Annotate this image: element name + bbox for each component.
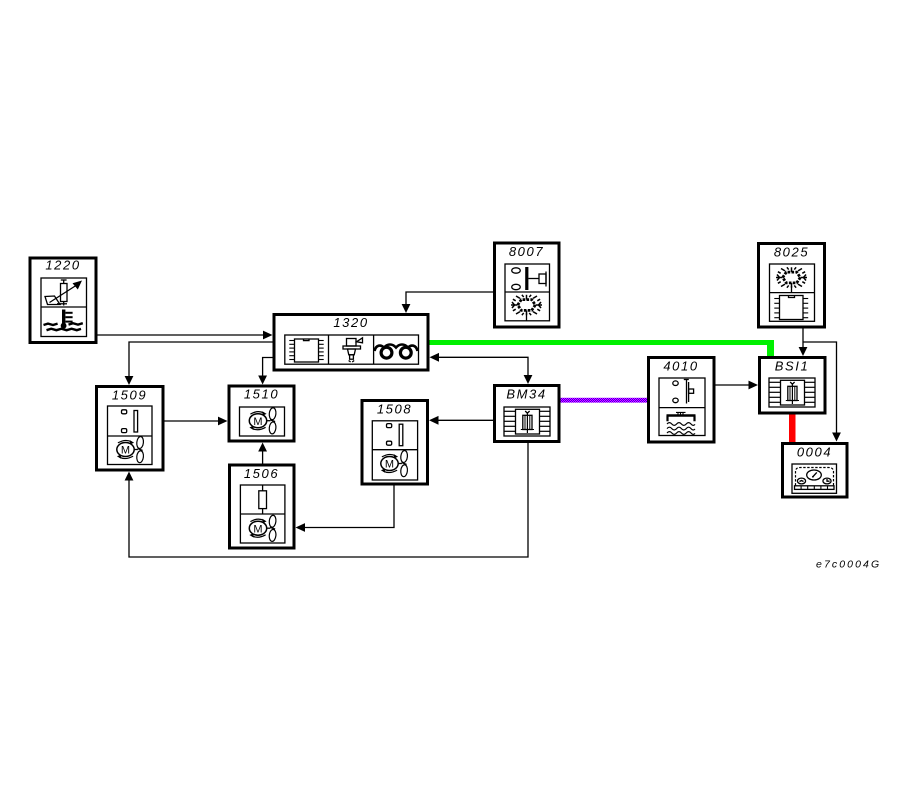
wire red BSI1 to 0004: [789, 415, 796, 443]
component 8007 AC pressure switch: [495, 243, 560, 327]
component BM34 engine fusebox: [495, 386, 560, 442]
svg-text:1220: 1220: [45, 258, 80, 273]
wire 1320 to BM34 bidirectional: [430, 353, 533, 384]
svg-text:1508: 1508: [377, 402, 412, 417]
motor fan: [117, 436, 144, 463]
svg-text:BSI1: BSI1: [775, 359, 810, 374]
double coil icon: [375, 345, 418, 359]
component BSI1 built-in systems interface: [760, 358, 826, 414]
ECU chip icon: [289, 339, 323, 362]
svg-text:1509: 1509: [112, 388, 147, 403]
svg-text:1506: 1506: [244, 466, 279, 481]
wire 8025 branch to 0004: [803, 342, 841, 442]
wire 1509 to 1510: [165, 417, 228, 426]
svg-text:4010: 4010: [663, 359, 698, 374]
component 1506 fan resistor unit: [230, 465, 295, 548]
wire 8007 to 1320: [402, 292, 494, 313]
chip icon: [774, 299, 808, 318]
wire purple BM34 to 4010: [561, 398, 648, 403]
wire 1506 to 1510: [258, 443, 267, 464]
component 1509 fan unit left: [97, 387, 164, 471]
motor fan: [381, 450, 408, 477]
wire 1320 to 1509: [125, 342, 273, 385]
svg-text:1320: 1320: [333, 315, 368, 330]
wire green thick 1320 to BSI1: [430, 340, 775, 356]
wire BM34 to 1509 long bottom: [125, 443, 528, 557]
motor fan: [249, 407, 276, 434]
svg-text:0004: 0004: [797, 445, 832, 460]
motor fan: [249, 515, 276, 542]
component 1508 fan unit center: [362, 401, 428, 485]
svg-text:e7c0004G: e7c0004G: [816, 559, 881, 571]
wire 1320 to 1510: [258, 358, 272, 385]
wire 8025 to BSI1: [799, 329, 808, 357]
component 1320 engine ECU: [274, 315, 428, 371]
component 0004 instrument cluster: [783, 444, 848, 498]
snowflake: [511, 295, 542, 315]
svg-text:8007: 8007: [509, 244, 544, 259]
svg-text:8025: 8025: [774, 245, 809, 260]
component 1220 coolant temp sensor: [30, 258, 96, 343]
svg-text:BM34: BM34: [506, 387, 546, 402]
wire BM34 to 1508: [429, 416, 493, 425]
component 4010 coolant level sensor: [649, 358, 715, 443]
coolant level icon: [667, 414, 696, 417]
wire 1220 to 1320: [98, 331, 273, 340]
snowflake: [776, 267, 807, 287]
component 8025 AC ECU: [759, 244, 825, 328]
wire 4010 to BSI1: [716, 381, 759, 390]
svg-text:1510: 1510: [244, 387, 279, 402]
component 1510 fan relay motor: [229, 386, 294, 441]
wire 1508 to 1506: [296, 486, 395, 532]
injector icon: [343, 338, 363, 362]
